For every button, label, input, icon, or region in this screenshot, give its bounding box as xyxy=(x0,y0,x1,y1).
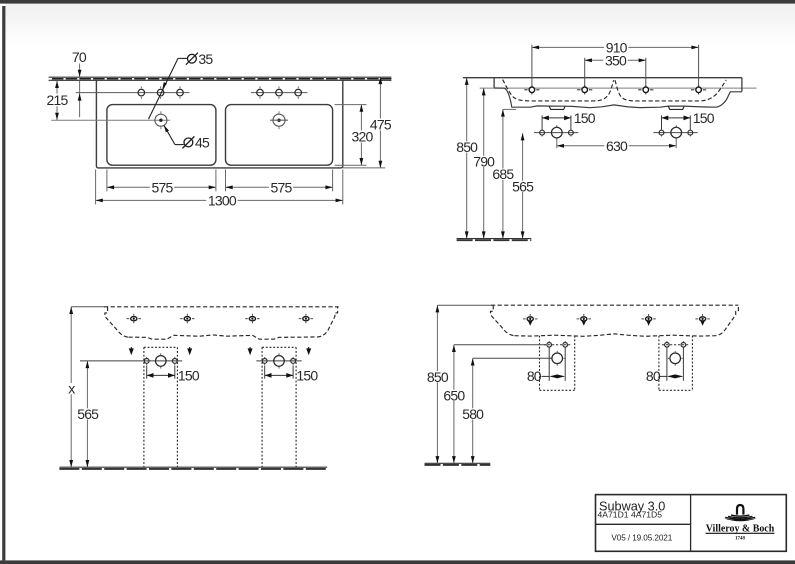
svg-text:4A71D1 4A71D5: 4A71D1 4A71D5 xyxy=(598,510,663,520)
svg-text:80: 80 xyxy=(646,368,661,384)
svg-text:575: 575 xyxy=(271,179,293,195)
svg-text:Villeroy & Boch: Villeroy & Boch xyxy=(706,522,775,534)
svg-text:1748: 1748 xyxy=(735,537,745,542)
svg-text:685: 685 xyxy=(492,166,514,182)
svg-text:630: 630 xyxy=(606,138,628,154)
svg-text:215: 215 xyxy=(47,92,69,108)
svg-text:650: 650 xyxy=(443,387,465,403)
svg-text:565: 565 xyxy=(512,178,534,194)
svg-text:80: 80 xyxy=(527,368,542,384)
svg-text:35: 35 xyxy=(198,51,213,67)
svg-text:x: x xyxy=(68,381,75,397)
svg-text:580: 580 xyxy=(462,406,484,422)
svg-text:320: 320 xyxy=(352,129,374,145)
svg-text:70: 70 xyxy=(72,49,87,65)
svg-text:1300: 1300 xyxy=(208,192,237,208)
svg-text:45: 45 xyxy=(195,135,210,151)
svg-text:150: 150 xyxy=(178,367,200,383)
svg-text:V05 / 19.05.2021: V05 / 19.05.2021 xyxy=(611,534,672,543)
svg-text:150: 150 xyxy=(693,110,715,126)
svg-text:575: 575 xyxy=(152,179,174,195)
svg-text:475: 475 xyxy=(370,117,392,133)
svg-text:150: 150 xyxy=(296,367,318,383)
svg-text:150: 150 xyxy=(574,110,596,126)
svg-text:350: 350 xyxy=(605,52,627,68)
svg-text:850: 850 xyxy=(427,369,449,385)
svg-text:565: 565 xyxy=(77,406,99,422)
